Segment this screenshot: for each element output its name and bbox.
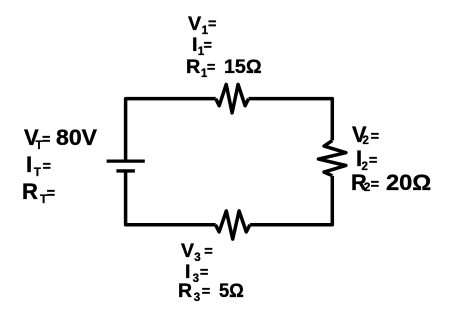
resistor R1 zigzag (216, 84, 249, 113)
label VT= 80V (24, 127, 96, 153)
wire: top-right segment and right wire down to R2 (249, 99, 333, 141)
label I3= (185, 263, 208, 285)
label V1= (188, 15, 216, 37)
resistor R2 zigzag (318, 141, 345, 176)
label IT= (26, 154, 51, 179)
label V2= (352, 124, 379, 148)
resistor R3 zigzag (216, 211, 250, 239)
label RT= (22, 181, 55, 206)
wire: top-left segment and left wire down to battery (126, 99, 216, 160)
wire: left wire below battery and bottom-left segment (126, 171, 216, 225)
label R1= 15 ohm (186, 58, 262, 80)
label I2= (356, 148, 377, 173)
battery VT long plate (107, 159, 145, 162)
label V3= (181, 242, 213, 264)
label R2= 20 ohm (351, 172, 427, 195)
label I1= (192, 36, 212, 58)
battery VT short plate (116, 169, 134, 172)
label R3= 5 ohm (178, 282, 246, 304)
wire: right wire below R2 and bottom-right segment (250, 176, 332, 225)
